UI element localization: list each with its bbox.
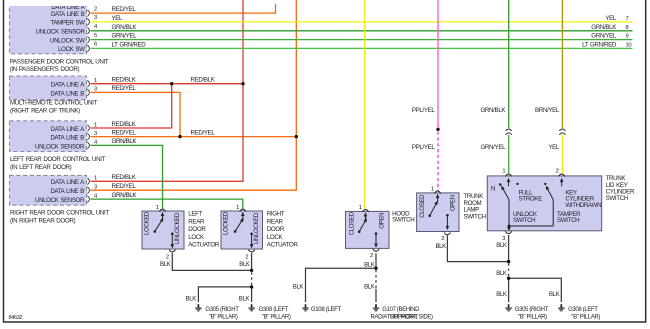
- node junction: [374, 267, 377, 270]
- wire GRN/YEL unlock sw row: [91, 33, 633, 40]
- svg-text:7: 7: [626, 16, 629, 22]
- svg-text:UNLOCKED: UNLOCKED: [253, 212, 260, 244]
- left rear door lock actuator: [142, 205, 220, 252]
- pin 2: [559, 174, 565, 177]
- svg-text:2: 2: [245, 254, 248, 260]
- svg-text:RED/BLK: RED/BLK: [191, 77, 216, 84]
- svg-text:DATA LINE B: DATA LINE B: [51, 11, 85, 18]
- svg-text:OPEN: OPEN: [379, 213, 386, 229]
- svg-text:2: 2: [370, 253, 373, 259]
- svg-text:DATA LINE A: DATA LINE A: [51, 126, 86, 133]
- wire RED/BLK data line A net: [91, 0, 245, 181]
- wire BLK trunk lid key cylinder to grounds: [496, 235, 561, 302]
- svg-text:LEFT: LEFT: [188, 211, 202, 218]
- svg-text:SWITCH: SWITCH: [606, 195, 628, 202]
- svg-text:RIGHT REAR DOOR CONTROL UNIT: RIGHT REAR DOOR CONTROL UNIT: [10, 210, 109, 217]
- svg-text:(IN PASSENGER'S DOOR): (IN PASSENGER'S DOOR): [10, 66, 80, 73]
- svg-text:1: 1: [431, 187, 434, 193]
- svg-text:G308 (LEFT: G308 (LEFT: [259, 307, 289, 313]
- wire RED/BLK vertical to U4 pin1: [91, 0, 244, 181]
- node splice PPL/YEL: [436, 128, 439, 131]
- node splice RED/YEL: [178, 135, 181, 138]
- svg-text:PASSENGER DOOR CONTROL UNIT: PASSENGER DOOR CONTROL UNIT: [10, 58, 109, 65]
- hood switch: [346, 205, 415, 251]
- svg-text:RED/YEL: RED/YEL: [112, 183, 137, 190]
- svg-text:G107 (BEHIND: G107 (BEHIND: [382, 307, 420, 313]
- node splice RED/YEL: [295, 135, 298, 138]
- svg-text:LOCKED: LOCKED: [144, 211, 151, 235]
- svg-text:RED/BLK: RED/BLK: [112, 174, 137, 181]
- crop white-out strip at top-left: [5, 0, 242, 6]
- pin 1: [362, 210, 368, 213]
- svg-text:DATA LINE A: DATA LINE A: [51, 179, 86, 186]
- svg-text:GRN/YEL: GRN/YEL: [112, 33, 138, 40]
- pin 1: [159, 209, 165, 212]
- svg-text:LT GRN/RED: LT GRN/RED: [112, 41, 147, 48]
- wire GRN/BLK U4 unlock sensor to right actuator: [91, 199, 243, 209]
- svg-text:ACTUATOR: ACTUATOR: [267, 242, 299, 249]
- trunk lid key cylinder switch: [487, 169, 635, 234]
- wire LT GRN/RED lock sw row: [91, 41, 633, 48]
- pin 3: [505, 231, 511, 233]
- svg-text:YEL: YEL: [605, 15, 617, 22]
- wire GRN/BLK unlock sensor row U1: [91, 24, 633, 31]
- right rear door control unit U4: [10, 175, 110, 224]
- node junction: [507, 260, 510, 263]
- svg-text:BLK: BLK: [186, 297, 197, 303]
- wire RED/YEL vertical to U4 pin3: [91, 0, 297, 190]
- svg-text:N: N: [491, 186, 495, 193]
- pin 2: [248, 250, 254, 252]
- svg-text:UNLOCK SENSOR: UNLOCK SENSOR: [35, 197, 85, 204]
- svg-text:PPL/YEL: PPL/YEL: [412, 144, 436, 151]
- svg-text:LOCK: LOCK: [267, 234, 284, 241]
- svg-text:G308 (LEFT: G308 (LEFT: [568, 307, 598, 313]
- svg-text:SWITCH: SWITCH: [513, 217, 535, 224]
- svg-text:RED/YEL: RED/YEL: [112, 129, 137, 136]
- svg-text:SUPPORT, SIDE): SUPPORT, SIDE): [390, 314, 433, 320]
- wire PPL/YEL vertical to trunk room lamp switch: [412, 0, 440, 191]
- svg-text:BLK: BLK: [549, 292, 560, 298]
- right rear door lock actuator: [221, 205, 298, 252]
- svg-text:MULTI-REMOTE CONTROL UNIT: MULTI-REMOTE CONTROL UNIT: [10, 100, 98, 107]
- svg-text:UNLOCK SENSOR: UNLOCK SENSOR: [36, 29, 86, 36]
- left rear door control unit U3: [10, 121, 106, 171]
- svg-text:"B" PILLAR): "B" PILLAR): [262, 314, 291, 320]
- svg-text:DOOR: DOOR: [267, 226, 285, 233]
- svg-text:2: 2: [166, 254, 169, 260]
- trunk room lamp switch: [417, 187, 486, 235]
- connector in-line: [559, 129, 565, 135]
- svg-text:RED/YEL: RED/YEL: [191, 129, 216, 136]
- svg-text:YEL: YEL: [548, 144, 560, 151]
- wire YEL vertical to hood switch: [364, 0, 366, 209]
- svg-text:SWITCH: SWITCH: [557, 217, 579, 224]
- svg-text:CLOSED: CLOSED: [348, 211, 355, 235]
- svg-text:DATA LINE A: DATA LINE A: [51, 82, 86, 89]
- svg-text:DATA LINE B: DATA LINE B: [50, 188, 84, 195]
- svg-text:GRN/BLK: GRN/BLK: [591, 24, 617, 31]
- multi-remote control unit U2: [10, 76, 98, 114]
- svg-text:BLK: BLK: [160, 262, 171, 268]
- svg-text:LEFT REAR DOOR CONTROL UNIT: LEFT REAR DOOR CONTROL UNIT: [10, 156, 106, 163]
- svg-text:BLK: BLK: [496, 271, 507, 277]
- ground G308 left: [248, 304, 291, 320]
- ground G107: [371, 304, 434, 320]
- svg-text:GRN/BLK: GRN/BLK: [112, 138, 138, 145]
- wire GRN/BLK U3 unlock sensor to left actuator: [91, 145, 163, 208]
- svg-text:REAR: REAR: [267, 218, 284, 225]
- svg-text:UNLOCK SENSOR: UNLOCK SENSOR: [35, 143, 85, 150]
- node junction: [250, 285, 253, 288]
- svg-text:RED/YEL: RED/YEL: [112, 6, 137, 13]
- svg-text:OPEN: OPEN: [450, 195, 457, 211]
- svg-text:LT GRN/RED: LT GRN/RED: [582, 41, 617, 48]
- svg-text:UNLOCKED: UNLOCKED: [174, 212, 181, 244]
- svg-text:"B" PILLAR): "B" PILLAR): [518, 314, 547, 320]
- svg-text:2: 2: [94, 6, 97, 12]
- pin 1: [240, 209, 246, 212]
- ground G308 right: [558, 304, 600, 320]
- svg-text:1: 1: [156, 205, 159, 211]
- svg-text:UNLOCK SW: UNLOCK SW: [50, 37, 85, 44]
- wire BLK actuators to grounds: [160, 253, 253, 303]
- wire BRN/YEL - YEL vertical to trunk lid key cylinder pin2: [535, 0, 566, 173]
- connector in-line: [506, 129, 512, 135]
- svg-text:REAR: REAR: [188, 218, 205, 225]
- svg-text:5: 5: [94, 33, 97, 39]
- svg-text:(IN LEFT REAR DOOR): (IN LEFT REAR DOOR): [10, 164, 72, 171]
- svg-text:G305 (RIGHT: G305 (RIGHT: [205, 307, 239, 313]
- wire YEL tamper sw row: [91, 15, 633, 22]
- svg-text:3: 3: [502, 236, 505, 242]
- svg-text:6: 6: [94, 42, 97, 48]
- passenger door control unit U1: [10, 4, 109, 73]
- svg-text:G108 (LEFT: G108 (LEFT: [311, 307, 342, 313]
- svg-text:BLK: BLK: [496, 243, 507, 249]
- svg-text:SWITCH: SWITCH: [392, 217, 414, 224]
- svg-text:RIGHT: RIGHT: [267, 211, 285, 218]
- svg-text:GRN/BLK: GRN/BLK: [480, 107, 506, 114]
- ground G305 right: [505, 304, 548, 320]
- svg-text:DATA LINE B: DATA LINE B: [50, 135, 84, 142]
- svg-text:(RIGHT REAR OF TRUNK): (RIGHT REAR OF TRUNK): [10, 107, 80, 114]
- svg-text:TAMPER SW: TAMPER SW: [51, 20, 86, 27]
- ground G108: [302, 304, 341, 313]
- svg-text:1: 1: [236, 205, 239, 211]
- wire U2 pin1 RED/BLK: [91, 83, 244, 85]
- svg-text:BLK: BLK: [239, 297, 250, 303]
- wire BLK hood switch to grounds: [293, 253, 378, 302]
- node junction: [250, 269, 253, 272]
- svg-text:STROKE: STROKE: [519, 195, 543, 202]
- svg-text:"B" PILLAR): "B" PILLAR): [209, 314, 238, 320]
- wire U3 pin3 RED/YEL: [91, 136, 297, 138]
- svg-text:GRN/YEL: GRN/YEL: [591, 33, 617, 40]
- svg-text:GRN/BLK: GRN/BLK: [112, 192, 138, 199]
- svg-text:LOCK: LOCK: [188, 234, 205, 241]
- pin 1: [434, 191, 440, 194]
- node splice RED/BLK: [170, 82, 173, 85]
- svg-text:BLK: BLK: [239, 262, 250, 268]
- svg-text:RED/BLK: RED/BLK: [112, 77, 137, 84]
- wire U1 pin2 RED/YEL to top stub: [91, 4, 276, 14]
- pin 2: [169, 250, 175, 252]
- svg-text:G305 (RIGHT: G305 (RIGHT: [515, 307, 549, 313]
- svg-text:CLOSED: CLOSED: [419, 194, 426, 218]
- svg-text:84632: 84632: [9, 315, 23, 321]
- svg-text:BRN/YEL: BRN/YEL: [535, 107, 560, 114]
- wire BLK trunk room lamp switch: [435, 235, 508, 261]
- svg-text:DATA LINE B: DATA LINE B: [50, 90, 84, 97]
- svg-text:8: 8: [626, 25, 629, 31]
- node splice RED/BLK: [241, 82, 244, 85]
- svg-text:2: 2: [441, 236, 444, 242]
- svg-text:PPL/YEL: PPL/YEL: [412, 107, 436, 114]
- ground G305 left: [195, 304, 239, 320]
- svg-text:DOOR: DOOR: [188, 226, 206, 233]
- pin 2: [444, 233, 450, 235]
- wire RED/BLK down to U3 pin1: [91, 84, 172, 128]
- svg-text:10: 10: [626, 42, 632, 48]
- pin 2: [373, 249, 379, 251]
- svg-text:9: 9: [626, 34, 629, 40]
- svg-text:SWITCH: SWITCH: [464, 213, 486, 220]
- svg-text:LOCKED: LOCKED: [223, 211, 230, 235]
- svg-text:RED/BLK: RED/BLK: [112, 121, 137, 128]
- svg-text:"B" PILLAR): "B" PILLAR): [571, 314, 600, 320]
- svg-text:GRN/BLK: GRN/BLK: [112, 24, 138, 31]
- svg-text:YEL: YEL: [112, 15, 124, 22]
- svg-text:(IN RIGHT REAR DOOR): (IN RIGHT REAR DOOR): [10, 218, 75, 225]
- svg-text:BLK: BLK: [496, 292, 507, 298]
- svg-text:3: 3: [94, 15, 97, 21]
- svg-text:ACTUATOR: ACTUATOR: [188, 242, 220, 249]
- svg-text:GRN/YEL: GRN/YEL: [480, 144, 506, 151]
- svg-text:1: 1: [502, 169, 505, 175]
- svg-text:1: 1: [359, 205, 362, 211]
- svg-text:RED/YEL: RED/YEL: [112, 85, 137, 92]
- svg-text:BLK: BLK: [435, 244, 446, 250]
- svg-text:BLK: BLK: [293, 284, 304, 290]
- svg-text:2: 2: [556, 169, 559, 175]
- wire GRN/BLK - GRN/YEL vertical to trunk lid key cylinder pin1: [480, 0, 511, 173]
- pin 1: [505, 174, 511, 177]
- svg-text:BLK: BLK: [364, 284, 375, 290]
- svg-text:BLK: BLK: [364, 262, 375, 268]
- node junction: [507, 277, 510, 280]
- svg-text:LOCK SW: LOCK SW: [58, 46, 85, 53]
- wire RED/YEL data line B net: [91, 0, 298, 190]
- svg-text:WITHDRAWN: WITHDRAWN: [565, 202, 601, 209]
- wire U2 pin3 RED/YEL down to U3 row: [91, 92, 181, 136]
